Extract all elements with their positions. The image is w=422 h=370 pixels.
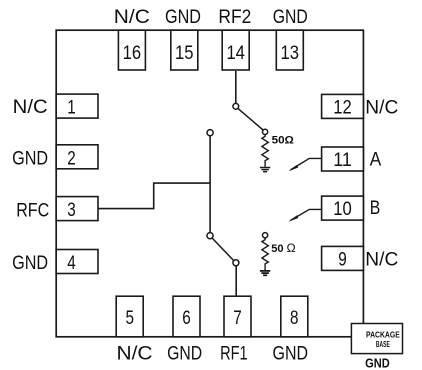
node RF2 contact <box>233 103 239 109</box>
resistor R1 50 ohm <box>262 135 268 167</box>
pin 5 (N/C) <box>116 296 143 337</box>
svg-text:RFC: RFC <box>16 199 49 221</box>
svg-text:GND: GND <box>273 342 309 364</box>
pin 2 (GND) <box>56 145 98 170</box>
svg-text:5: 5 <box>125 307 134 329</box>
svg-text:10: 10 <box>333 198 352 220</box>
pin 14 (RF2) <box>222 30 249 70</box>
pin 6 (GND) <box>173 296 200 337</box>
svg-text:15: 15 <box>175 42 194 64</box>
package base paddle <box>351 324 402 354</box>
ground for R2 <box>260 271 270 275</box>
control arrow B (pin 10 to SW2) <box>288 209 322 221</box>
svg-text:11: 11 <box>333 149 352 171</box>
svg-text:7: 7 <box>233 307 242 329</box>
svg-text:2: 2 <box>67 147 76 169</box>
wire RFC pole bus <box>209 136 211 233</box>
svg-text:GND: GND <box>167 342 202 364</box>
svg-text:3: 3 <box>67 199 76 221</box>
svg-text:N/C: N/C <box>117 342 153 364</box>
svg-text:6: 6 <box>182 307 191 329</box>
svg-text:Ω: Ω <box>287 243 297 255</box>
svg-text:50: 50 <box>271 243 283 255</box>
svg-text:A: A <box>370 148 382 170</box>
wire RFC: pin 3 to pole bus <box>98 183 210 209</box>
pin 11 (A) <box>322 147 364 171</box>
svg-text:16: 16 <box>123 42 142 64</box>
svg-text:9: 9 <box>338 249 347 271</box>
svg-text:50Ω: 50Ω <box>272 135 294 147</box>
svg-text:1: 1 <box>67 97 76 119</box>
pin 4 (GND) <box>56 250 98 275</box>
svg-text:N/C: N/C <box>13 96 48 118</box>
node termination R2 top <box>263 233 268 238</box>
svg-text:B: B <box>370 197 381 219</box>
svg-text:GND: GND <box>365 356 390 370</box>
resistor R2 50 ohm <box>262 238 268 270</box>
ground for R1 <box>260 168 270 172</box>
pin 10 (B) <box>322 196 364 220</box>
svg-text:N/C: N/C <box>365 249 398 271</box>
switch SW1 blade (RF2 to 50 ohm termination) <box>238 108 263 130</box>
pin 12 (N/C) <box>322 94 364 118</box>
node pole top contact <box>207 130 213 136</box>
svg-text:N/C: N/C <box>114 6 150 28</box>
node RF1 contact <box>233 260 239 266</box>
svg-text:BASE: BASE <box>376 339 390 349</box>
pin 7 (RF1) <box>224 296 251 337</box>
svg-text:GND: GND <box>273 6 308 28</box>
svg-text:GND: GND <box>12 148 48 170</box>
control arrow A (pin 11 to SW1) <box>288 158 322 171</box>
pin 15 (GND) <box>171 30 198 70</box>
node termination R1 top <box>263 129 268 134</box>
pin 8 (GND) <box>281 296 308 337</box>
svg-text:4: 4 <box>67 252 76 274</box>
svg-text:RF2: RF2 <box>218 6 251 28</box>
pin 1 (N/C) <box>56 94 98 119</box>
pin 3 (RFC) <box>56 197 98 222</box>
svg-text:RF1: RF1 <box>220 342 248 364</box>
pin 9 (N/C) <box>322 246 364 270</box>
svg-text:12: 12 <box>333 97 352 119</box>
switch SW2 blade (pole to RF1 contact) <box>212 238 234 261</box>
svg-text:GND: GND <box>165 6 201 28</box>
package outline <box>56 30 363 337</box>
pin 16 (N/C) <box>118 30 145 70</box>
svg-text:13: 13 <box>281 42 300 64</box>
wire RF2: pin 14 to switch contact <box>235 71 237 103</box>
node pole bottom contact <box>207 233 213 239</box>
svg-text:PACKAGE: PACKAGE <box>366 329 400 339</box>
svg-text:N/C: N/C <box>365 97 398 119</box>
svg-text:8: 8 <box>290 307 299 329</box>
wire RF1: switch contact to pin 7 <box>235 266 237 296</box>
svg-text:14: 14 <box>226 42 245 64</box>
svg-text:GND: GND <box>12 252 48 274</box>
pin 13 (GND) <box>276 30 303 70</box>
